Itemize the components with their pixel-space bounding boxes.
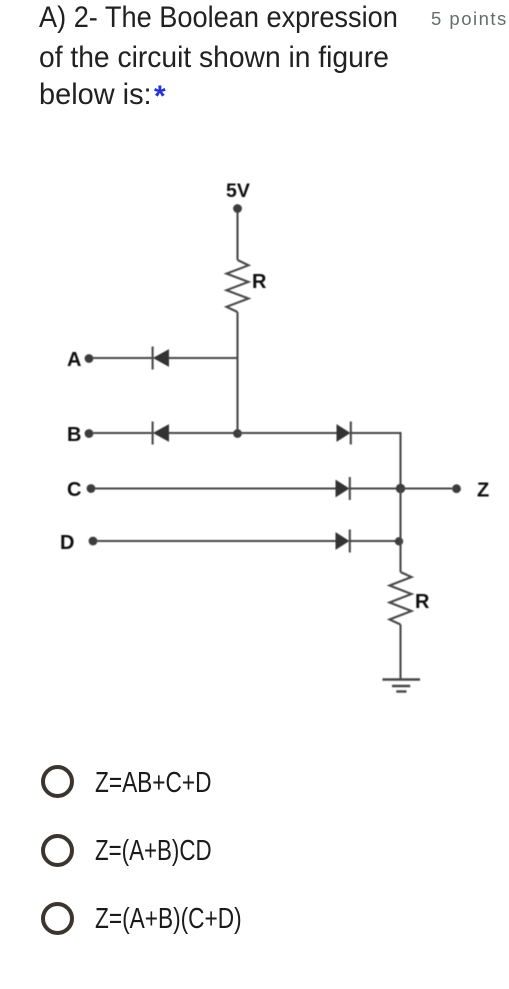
junction dot N1: [233, 429, 242, 438]
required asterisk: [154, 80, 166, 114]
wire right rail N2 to N3 to resistor R2: [399, 489, 401, 573]
points badge: [431, 8, 508, 30]
node 5V terminal dot: [233, 204, 242, 213]
junction dot N2: [396, 484, 405, 493]
resistor R1: [227, 260, 249, 312]
svg-text:C: C: [67, 479, 81, 501]
diode D3 (B to output, anode left): [337, 422, 351, 445]
wire diode D3 to corner, down right rail: [351, 433, 401, 489]
wire junction N2 to output Z terminal: [401, 487, 453, 489]
diode D2 (B input, cathode left): [153, 422, 169, 445]
node 5V supply label: [226, 180, 250, 202]
question title text line 2: [39, 43, 389, 73]
svg-text:Z: Z: [477, 480, 489, 502]
wire diode D2 to junction N1: [169, 432, 238, 434]
svg-text:D: D: [60, 532, 74, 554]
svg-text:B: B: [67, 424, 81, 446]
question title text line 3: [39, 80, 152, 110]
svg-text:A: A: [67, 349, 81, 371]
node A input label: [67, 349, 81, 371]
node B input label: [67, 424, 81, 446]
wire resistor R1 to node N1 on B line: [236, 312, 238, 433]
wire B terminal to diode D2: [93, 432, 151, 434]
node Z output label: [477, 480, 489, 502]
node C terminal dot: [87, 484, 96, 493]
radio option 1: [41, 765, 74, 798]
wire diode D4 to junction N2: [350, 487, 401, 489]
radio option 3: [41, 902, 74, 935]
radio option 2: [41, 834, 74, 867]
question title text line 1: [39, 3, 398, 33]
diode D4 (C input, anode left): [336, 477, 350, 500]
node D terminal dot: [89, 537, 98, 546]
diode D1 (A input, cathode left): [153, 347, 169, 370]
svg-text:5V: 5V: [226, 180, 250, 202]
svg-text:R: R: [415, 591, 430, 613]
junction dot N3: [395, 537, 403, 545]
wire diode D1 to node N1 column: [169, 357, 238, 359]
ground: [383, 680, 421, 692]
node Z terminal dot: [452, 484, 461, 493]
wire C terminal to diode D4: [95, 487, 336, 489]
node A terminal dot: [85, 354, 94, 363]
wire 5V to resistor R1: [236, 213, 238, 261]
diode D5 (D input, anode left): [336, 530, 350, 553]
node B terminal dot: [85, 429, 94, 438]
resistor R2 value label R: [415, 591, 430, 613]
node C input label: [67, 479, 81, 501]
resistor R1 value label R: [252, 271, 267, 293]
wire diode D5 to junction N3: [350, 540, 399, 542]
node D input label: [60, 532, 74, 554]
wire D terminal to diode D5: [97, 540, 336, 542]
wire A terminal to diode D1: [93, 357, 151, 359]
wire junction N1 to diode D3: [238, 432, 338, 434]
svg-text:R: R: [252, 271, 267, 293]
wire resistor R2 to ground: [399, 625, 401, 680]
resistor R2: [390, 572, 412, 625]
